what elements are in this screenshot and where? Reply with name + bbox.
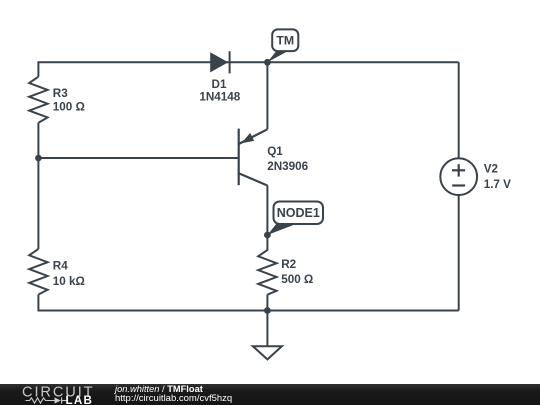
svg-text:TM: TM — [276, 34, 294, 48]
wire bottom horizontal — [38, 295, 458, 311]
svg-text:100 Ω: 100 Ω — [53, 100, 85, 113]
transistor Q1 — [239, 129, 268, 186]
svg-text:LAB: LAB — [66, 394, 94, 405]
footer url line — [115, 394, 232, 404]
junction dot ground node — [264, 307, 271, 314]
svg-text:D1: D1 — [212, 78, 227, 91]
junction dot base node — [35, 155, 42, 162]
svg-text:10 kΩ: 10 kΩ — [53, 275, 85, 288]
svg-text:V2: V2 — [484, 163, 499, 176]
svg-text:1.7 V: 1.7 V — [484, 178, 511, 191]
wire base from left rail to Q1 — [38, 157, 238, 159]
diode D1 — [210, 51, 229, 73]
Q1 emitter arrow — [241, 133, 254, 143]
flag TM — [267, 29, 298, 62]
resistor R3 — [29, 77, 47, 123]
wire right side lower — [458, 195, 460, 310]
svg-text:R2: R2 — [281, 258, 296, 271]
ground — [253, 311, 282, 360]
wire emitter vertical to top node — [266, 62, 268, 129]
svg-text:NODE1: NODE1 — [277, 206, 320, 220]
svg-text:R4: R4 — [53, 260, 68, 273]
wire R2 bottom lead — [266, 295, 268, 311]
junction dot NODE1 — [264, 232, 271, 239]
flag NODE1 — [267, 202, 323, 236]
footer credit line — [115, 385, 203, 395]
logo resistor-diode doodle — [26, 397, 67, 403]
CircuitLab logo — [0, 384, 110, 405]
junction dot node TM — [264, 59, 271, 66]
wire left R3 to R4 with base tap — [37, 123, 39, 249]
svg-text:1N4148: 1N4148 — [199, 91, 240, 104]
wire collector vertical to NODE1 — [266, 186, 268, 236]
wire right side upper — [458, 62, 460, 158]
footer bar — [0, 384, 540, 405]
svg-text:Q1: Q1 — [267, 145, 283, 158]
svg-text:R3: R3 — [53, 87, 68, 100]
svg-text:500 Ω: 500 Ω — [281, 273, 313, 286]
wire top horizontal — [38, 62, 458, 76]
resistor R2 — [258, 235, 276, 295]
svg-text:2N3906: 2N3906 — [267, 160, 308, 173]
resistor R4 — [29, 249, 47, 295]
voltage source V2 — [440, 158, 477, 195]
